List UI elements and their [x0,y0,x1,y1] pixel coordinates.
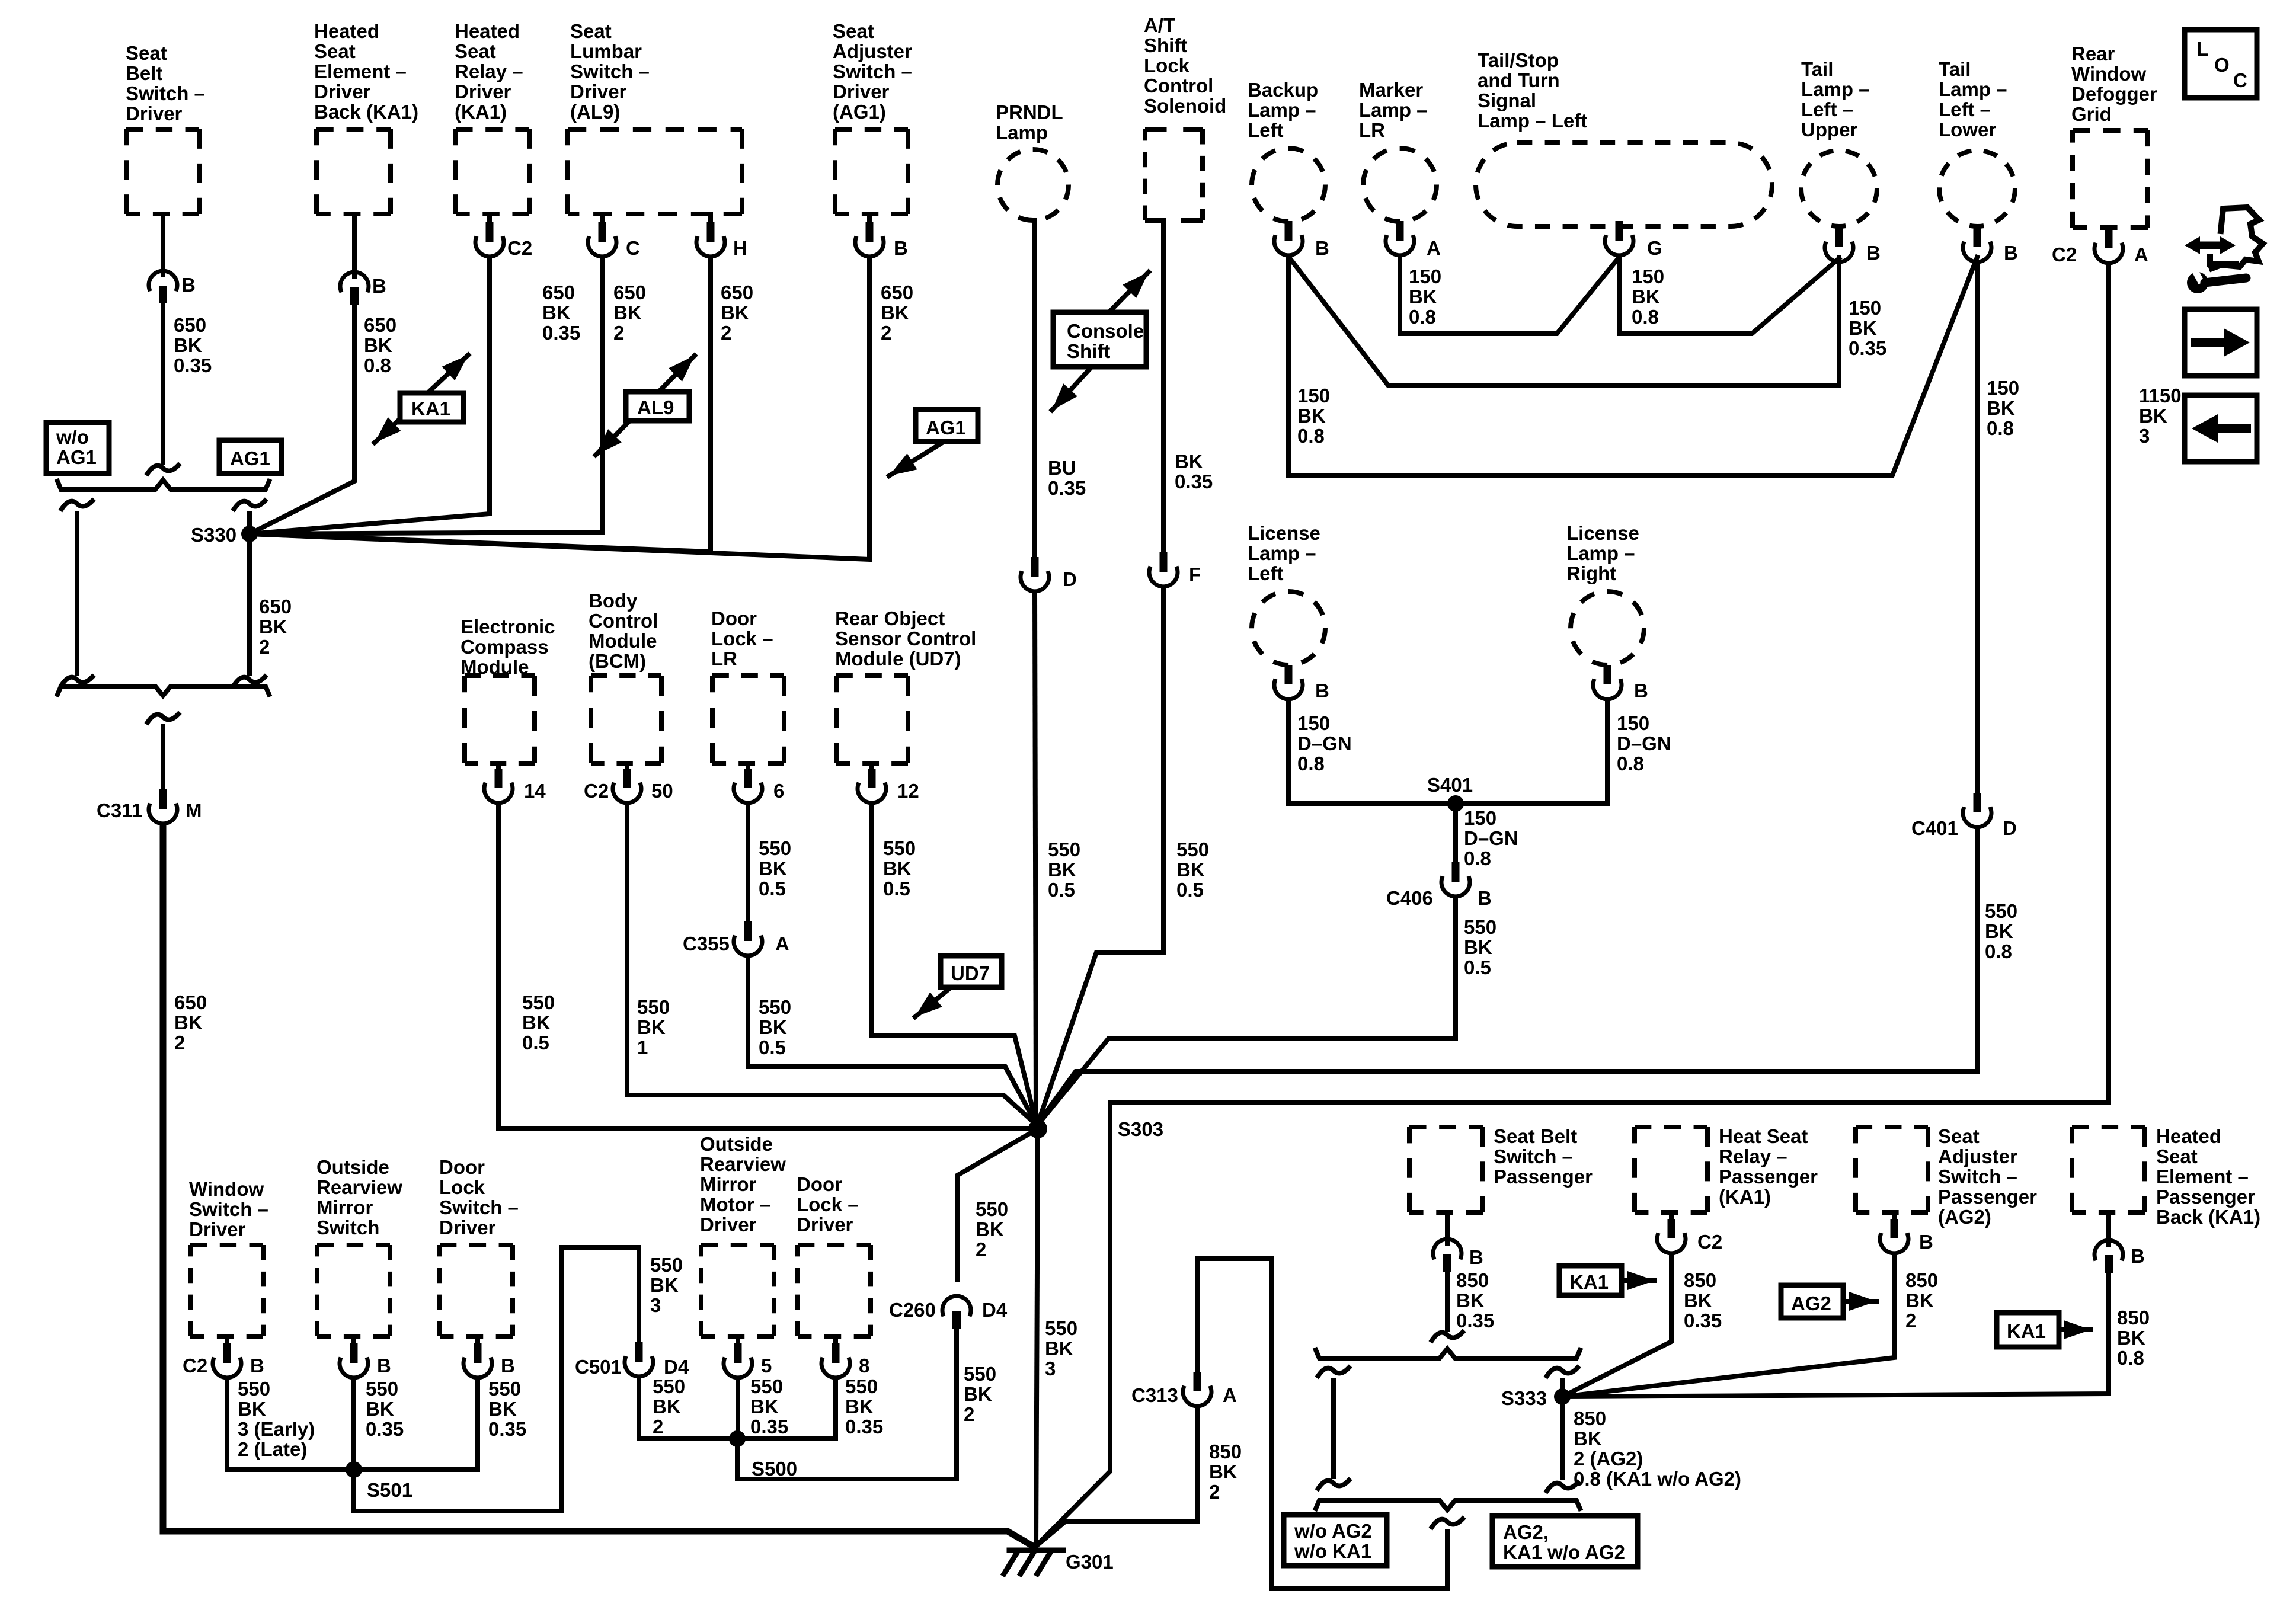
connector C2 heated seat relay [475,222,504,257]
break to option brace [148,465,178,473]
component box Heated Seat Element - Driver Back [316,127,391,132]
svg-text:C406: C406 [1386,887,1433,909]
wire element passenger to connector [2106,1212,2111,1244]
wire relay to connector C2 [487,214,492,224]
break mark S333 bar top [1547,1368,1578,1376]
wire door lock driver stub [833,1336,838,1345]
splice S501 [346,1461,362,1478]
break mark below brace [148,714,178,722]
callout box KA1 passenger relay [1559,1266,1622,1295]
svg-text:A: A [775,933,789,955]
connector C401 pin D [1963,793,1991,827]
lamp symbol Backup Lamp - Left [1252,148,1325,222]
component box Seat Adjuster Switch - Driver [835,127,908,132]
svg-text:C355: C355 [683,933,730,955]
callout box w/o AG1 [46,423,109,473]
svg-text:B: B [1919,1231,1933,1253]
connector B license lamp left [1274,665,1303,699]
wire option left bar [75,513,79,673]
wire BK 0.35 [1161,220,1166,552]
svg-text:50: 50 [651,780,673,802]
component box Seat Adjuster Switch - Passenger [1856,1125,1928,1129]
callout arrow console shift NE [1109,272,1149,312]
connector pin 6 door lock LR [734,769,762,803]
wire 550 BK 1 BCM to S303 [627,804,1038,1126]
wire 550 BK 0.35 to S501 [362,1379,478,1470]
connector B mirror switch [340,1343,368,1378]
icon box forward arrow [2185,309,2257,376]
callout box KA1 driver [400,393,463,422]
connector B seat adjuster switch passenger [1880,1219,1908,1253]
wire door lock switch stub [475,1336,480,1345]
connector C260 pin D4 [942,1296,971,1329]
wire 550 BK 0.5 C355 to S303 [748,957,1038,1127]
wire 550 BK 0.8 to S303 [1038,828,1977,1124]
break mark left bar top [62,501,92,509]
svg-text:8: 8 [859,1355,869,1377]
wire passenger option left bar [1331,1381,1336,1477]
wire defogger stub [2106,228,2111,231]
wire mirror motor stub [736,1336,740,1345]
connector pin 14 compass [484,769,513,803]
component box Door Lock Switch - Driver [440,1243,513,1247]
connector pin 12 rear object module [858,769,886,803]
svg-text:C: C [2233,69,2247,91]
connector B tail lamp upper [1825,228,1853,262]
svg-text:H: H [733,237,747,259]
wire 550 BK 0.35 to S501 [351,1379,356,1461]
wire 650 BK 0.35 [161,303,165,462]
svg-text:B: B [501,1355,515,1377]
wire seat belt passenger to connector [1445,1212,1450,1243]
component box Door Lock - Driver [798,1243,871,1247]
splice S500 [729,1430,746,1447]
svg-text:KA1: KA1 [2007,1320,2046,1342]
wire 650 BK 2 C to S330 [250,258,602,534]
wire compass stub [496,763,501,770]
svg-text:L: L [2196,38,2208,60]
wire BCM stub [625,763,629,770]
wire to C311 [161,727,165,790]
connector C313 pin A [1183,1372,1211,1406]
svg-text:w/o AG2w/o KA1: w/o AG2w/o KA1 [1294,1520,1372,1562]
svg-text:AG1: AG1 [230,447,270,469]
wire adjuster to connector B [867,214,872,224]
callout box AL9 [626,392,689,421]
wire lumbar pin C [600,214,605,224]
component box BCM [591,673,661,678]
svg-text:C: C [626,237,640,259]
wire 550 BK 0.5 to S303 [872,804,1036,1122]
connector C406 pin B [1441,862,1470,897]
wire 150 BK 0.8 G to tail upper B [1619,257,1839,334]
svg-text:D: D [2003,817,2017,839]
wire 550 BK 0.5 to S303 [1038,588,1163,1124]
splice S303 [1028,1119,1047,1138]
svg-text:C260: C260 [889,1299,936,1321]
break mark left bar bottom [62,677,92,685]
svg-text:C313: C313 [1131,1384,1178,1406]
lamp symbol Tail Lamp - Left - Upper [1801,151,1877,226]
svg-text:B: B [377,1355,391,1377]
svg-text:G: G [1647,237,1662,259]
connector B tail lamp lower [1963,228,1991,262]
break mark to passenger brace [1432,1332,1463,1340]
svg-text:AL9: AL9 [637,396,674,418]
callout arrow KA1 passenger relay [1622,1278,1655,1283]
connector B seat belt switch [149,271,177,303]
svg-text:6: 6 [773,780,784,802]
break mark passenger left bar bottom [1318,1480,1349,1489]
component box Rear Object Sensor Control Module [836,673,908,678]
lamp symbol License Lamp - Right [1571,591,1644,665]
wire 850 BK 0.35 to S333 [1562,1254,1671,1397]
callout box AG2, KA1 w/o AG2 [1492,1516,1638,1567]
wire 650 BK 2 to S330 [250,258,869,559]
wire 150 BK 0.8 marker to tail/stop G [1400,257,1619,334]
svg-text:G301: G301 [1066,1551,1114,1573]
wire 650 BK 0.8 to S330 [250,305,354,534]
component box A/T Shift Lock Control Solenoid [1145,127,1203,132]
svg-text:KA1: KA1 [1569,1271,1609,1293]
svg-text:C2: C2 [1697,1231,1722,1253]
break mark S330 bar top [234,501,265,509]
connector C2 heat seat relay passenger [1657,1219,1686,1253]
component box Heated Seat Element - Passenger Back [2072,1125,2145,1129]
icon box rearward arrow [2185,395,2257,462]
svg-text:S401: S401 [1427,774,1473,796]
svg-text:B: B [2131,1245,2145,1267]
connector B seat adjuster switch [855,222,884,257]
connector B backup lamp [1274,221,1303,255]
callout arrow AG2 [1843,1299,1876,1304]
icon harness routing with wrench [2185,207,2263,293]
lamp symbol Tail Lamp - Left - Lower [1939,151,2015,226]
callout box w/o AG2 w/o KA1 [1284,1515,1387,1566]
connector G tail/stop turn signal lamp [1605,221,1633,255]
wire 650 BK 2 to G301 [163,825,1035,1547]
lamp symbol Tail/Stop and Turn Signal Lamp - Left [1476,143,1772,226]
wire 150 D-GN 0.8 left to S401 [1288,700,1456,804]
svg-text:KA1: KA1 [411,398,450,420]
ground G301 [1004,1550,1063,1574]
connector C355 pin A [734,921,762,956]
callout arrow console shift SW [1052,367,1092,410]
wire rear object stub [869,763,874,770]
wire door lock LR stub [746,763,750,770]
wire 650 BK 2 H to S330 [250,258,711,552]
connector B license lamp right [1593,665,1622,699]
connector C2 pin 50 BCM [613,769,641,803]
option brace bottom passenger [1316,1500,1580,1510]
wire 850 BK 0.35 [1445,1272,1450,1329]
connector D PRNDL lamp [1021,557,1049,591]
svg-text:S330: S330 [191,524,236,546]
svg-text:C311: C311 [97,799,142,821]
lamp symbol PRNDL Lamp [997,149,1069,220]
wire 150 D-GN 0.8 right to S401 [1456,700,1607,804]
connector C seat lumbar switch [588,222,616,257]
svg-text:C501: C501 [575,1356,622,1378]
wire 850 BK 2 C313 to G301 [1035,1407,1197,1547]
svg-text:S333: S333 [1501,1387,1547,1409]
svg-text:C2: C2 [2052,244,2077,265]
connector B seat belt switch passenger [1433,1239,1462,1272]
connector pin 5 mirror motor [724,1343,752,1378]
wire backup lamp B to tail upper B 150 BK 0.35 [1288,257,1839,385]
wire relay passenger stub [1669,1212,1674,1221]
callout box AG2 [1781,1285,1843,1318]
wire 850 BK 2 to S333 [1562,1254,1894,1397]
svg-text:D: D [1063,568,1077,590]
lamp symbol Marker Lamp - LR [1363,148,1437,222]
callout arrow AL9 [596,356,695,455]
wire 650 BK 0.35 to S330 [250,258,490,534]
wire 550 BK 3 S501 to C501 [354,1247,639,1511]
svg-text:B: B [1634,680,1648,702]
svg-text:AG1: AG1 [926,417,966,439]
wire 550 BK 0.35 to S500 [746,1379,836,1439]
wire 550 BK 0.5 to S303 [1035,593,1036,1121]
wire w/o AG2 option to C313 [1197,1259,1447,1589]
connector pin 8 door lock driver [821,1343,850,1378]
option brace bottom driver [57,686,269,696]
svg-text:A: A [1223,1384,1237,1406]
wire 550 BK 3(Early) 2(Late) to S501 [227,1379,354,1470]
svg-text:B: B [1866,242,1881,264]
component box Seat Belt Switch - Passenger [1409,1125,1483,1129]
svg-text:C2: C2 [584,780,609,802]
component box Outside Rearview Mirror Motor - Driver [701,1243,774,1247]
wire 150 BK 0.8 backup to tail lower B [1288,257,1977,475]
svg-text:B: B [1315,237,1329,259]
option brace top passenger [1316,1349,1580,1358]
svg-text:5: 5 [761,1355,772,1377]
callout arrow UD7 [915,984,955,1017]
wire 550 BK 2 S303 to C260 [958,1129,1038,1280]
component box Outside Rearview Mirror Switch [317,1243,390,1247]
svg-text:O: O [2214,54,2230,76]
svg-text:C2: C2 [183,1355,207,1377]
svg-text:B: B [2004,242,2018,264]
component box Door Lock - LR [712,673,784,678]
callout arrow KA1 driver [375,355,468,443]
svg-text:F: F [1189,564,1201,585]
svg-text:S303: S303 [1118,1118,1163,1140]
svg-text:D4: D4 [664,1356,689,1378]
splice S330 [241,526,258,542]
svg-text:B: B [1315,680,1329,702]
component box Seat Belt Switch - Driver [126,127,199,132]
component box Seat Lumbar Switch - Driver [568,127,742,132]
callout box UD7 [941,956,1002,987]
svg-text:M: M [186,799,202,821]
option brace top driver [57,480,269,489]
wire 550 BK 0.5 compass to S303 [498,804,1029,1129]
break mark S333 bar bottom [1547,1483,1578,1491]
svg-text:AG2: AG2 [1791,1292,1831,1314]
break mark S330 bar bottom [234,677,265,685]
callout box KA1 passenger element [1997,1313,2059,1347]
svg-text:12: 12 [897,780,919,802]
wire mirror switch stub [351,1336,356,1345]
splice S333 [1554,1388,1571,1405]
callout box AG1 adjuster [916,409,978,441]
wire 550 BK 0.35 to S500 [736,1379,740,1432]
wire BU 0.35 [1032,220,1037,557]
svg-text:UD7: UD7 [951,962,990,984]
svg-text:S501: S501 [367,1479,412,1501]
svg-text:B: B [894,237,908,259]
wire 1150 BK 3 defogger to G301 [1035,264,2109,1547]
svg-text:B: B [1469,1246,1483,1268]
component box Rear Window Defogger Grid [2073,128,2148,133]
svg-text:A: A [1427,237,1441,259]
svg-text:A: A [2134,244,2148,265]
callout arrow AG1 adjuster [889,440,947,476]
svg-text:C401: C401 [1911,817,1958,839]
wire 150 D-GN 0.8 below S401 [1453,804,1458,862]
wire 150 BK 0.8 tail lower down [1975,263,1980,793]
svg-text:C2: C2 [507,237,532,259]
svg-text:B: B [1478,887,1492,909]
wire 850 BK 0.8 to S333 [1562,1273,2109,1397]
callout box Console Shift [1053,312,1146,367]
connector C311 pin M [149,789,177,824]
wire window switch stub [225,1336,229,1345]
svg-text:B: B [250,1355,264,1377]
lamp symbol License Lamp - Left [1252,591,1325,665]
svg-text:D4: D4 [982,1299,1008,1321]
wire 550 BK 2 C501 to S500 [639,1378,737,1439]
wire through S333 [1560,1381,1565,1478]
wire seat belt switch to connector B [161,214,165,275]
connector C2 pin A defogger [2094,229,2123,263]
connector C2 pin B window switch [213,1343,241,1378]
wire 650 BK 2 through S330 [247,513,252,673]
connector B heated seat element passenger back [2094,1240,2123,1273]
icon box LOC [2185,30,2257,98]
connector C501 pin D4 [625,1342,653,1377]
callout arrow KA1 passenger element [2059,1327,2091,1332]
wire 550 BK 0.5 C406 to S303 [1038,898,1456,1125]
wire 550 BK 2 C260 to S500 [737,1329,957,1479]
wire adjuster passenger stub [1892,1212,1897,1221]
connector B heated seat element [340,272,369,305]
splice S401 [1447,795,1464,812]
svg-text:14: 14 [524,780,546,802]
svg-text:B: B [181,274,196,296]
wire lumbar pin H [708,214,713,224]
wire 550 BK 0.5 [746,804,750,922]
svg-text:B: B [372,275,386,297]
callout box AG1 [219,440,282,473]
component box Window Switch - Driver [190,1243,263,1247]
connector A marker lamp [1386,221,1414,255]
connector F A/T shift lock solenoid [1149,552,1178,587]
connector B door lock switch [463,1343,492,1378]
break mark passenger left bar top [1318,1368,1349,1376]
component box Heat Seat Relay - Passenger [1635,1125,1707,1129]
break mark below passenger brace [1432,1519,1463,1527]
svg-text:S500: S500 [752,1458,797,1480]
component box Heated Seat Relay - Driver [456,127,529,132]
connector H seat lumbar switch [696,222,725,257]
wire element to connector B [352,214,357,276]
component box Electronic Compass Module [465,673,535,678]
wire 550 BK 3 S303 to G301 [1036,1129,1038,1547]
